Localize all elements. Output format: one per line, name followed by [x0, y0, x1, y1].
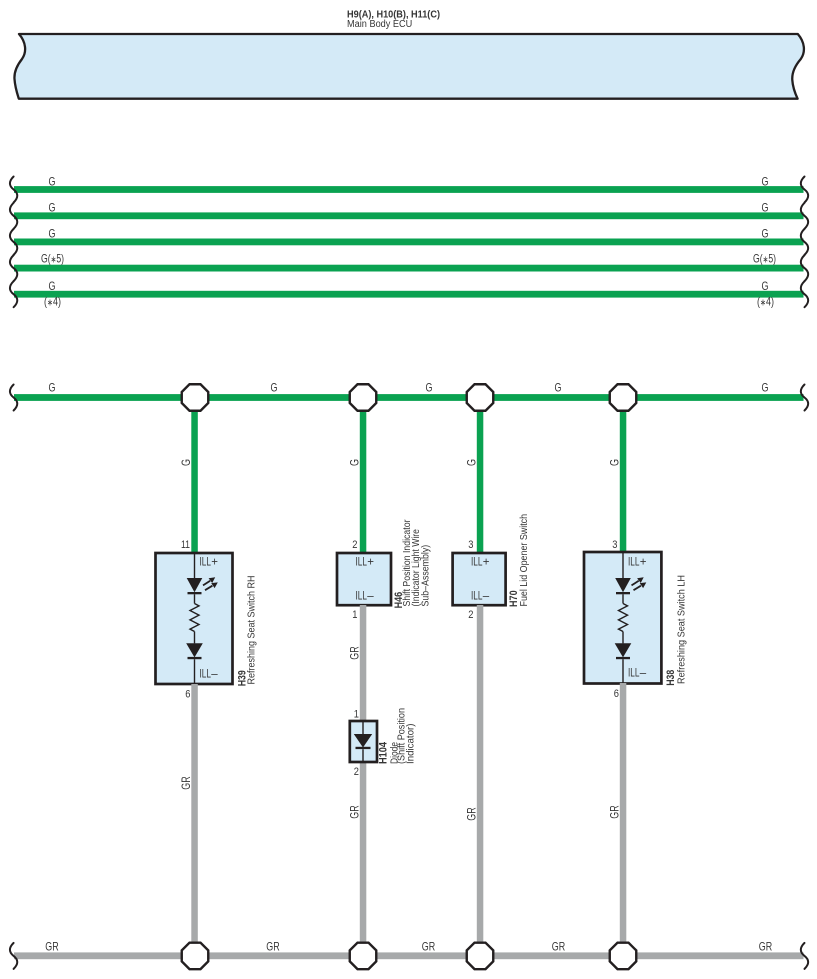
svg-text:3: 3: [612, 539, 617, 551]
svg-text:H38: H38: [665, 670, 677, 686]
svg-text:6: 6: [185, 689, 190, 701]
gray wire labels GR (rotated): [179, 646, 622, 821]
branch wire labels G (rotated): [179, 459, 622, 466]
H104 diode symbol: [354, 734, 372, 748]
row labels right: [753, 174, 776, 308]
svg-text:2: 2: [354, 766, 359, 778]
svg-text:3: 3: [468, 539, 473, 551]
svg-text:–: –: [483, 590, 490, 602]
wire row 1 (G): [14, 186, 804, 193]
bottom ground bus (GR): [14, 952, 804, 959]
svg-text:GR: GR: [266, 940, 280, 954]
main illumination bus (G): [14, 394, 804, 401]
svg-text:G: G: [426, 380, 433, 394]
svg-text:G: G: [762, 174, 769, 188]
node junction 1: [182, 384, 209, 411]
H38 LED light arrows: [632, 581, 641, 590]
wire break bottom bus left: [10, 943, 17, 969]
svg-text:Sub–Assembly): Sub–Assembly): [421, 545, 432, 607]
wire break bus right: [801, 385, 808, 411]
H39 LED symbol: [187, 578, 203, 592]
H38 LED symbol: [615, 578, 631, 592]
svg-text:Refreshing Seat Switch LH: Refreshing Seat Switch LH: [677, 575, 688, 684]
wire row 5 (G (*4)): [14, 291, 804, 298]
H39 diode: [186, 643, 203, 657]
wire row 4 (G(*5)): [14, 265, 804, 272]
connector box H39: [156, 553, 233, 684]
H39 internal wire: [194, 553, 196, 684]
branch wire 4 (G) to H38: [620, 398, 627, 553]
svg-text:GR: GR: [348, 646, 362, 660]
svg-text:Refreshing Seat Switch RH: Refreshing Seat Switch RH: [247, 576, 258, 685]
svg-text:1: 1: [352, 609, 357, 621]
svg-text:ILL: ILL: [356, 556, 368, 568]
break marks bottom bus: [10, 943, 808, 969]
svg-text:GR: GR: [552, 940, 566, 954]
bottom bus labels GR: [45, 940, 772, 954]
wire row 3 (G): [14, 239, 804, 246]
svg-text:G: G: [348, 459, 362, 466]
gray wire H70 to bottom bus (GR): [477, 605, 484, 955]
bus segment labels G: [49, 380, 769, 394]
svg-text:ILL: ILL: [471, 590, 483, 602]
svg-text:ILL: ILL: [628, 668, 640, 680]
svg-text:G: G: [762, 227, 769, 241]
node junction 4: [610, 384, 637, 411]
ECU connector band H9/H10/H11 (Main Body ECU): [14, 34, 803, 99]
svg-text:–: –: [367, 590, 374, 602]
svg-text:G: G: [49, 201, 56, 215]
node junction 3: [467, 384, 494, 411]
H104 internal wire: [362, 721, 364, 762]
node junction 2: [350, 384, 377, 411]
wire break row 4 left: [10, 255, 17, 281]
svg-text:GR: GR: [179, 776, 193, 790]
svg-text:G(∗5): G(∗5): [753, 251, 776, 265]
svg-text:Fuel Lid Opener Switch: Fuel Lid Opener Switch: [519, 514, 530, 607]
break marks right rows: [801, 177, 808, 308]
branch wire 2 (G) to H46: [360, 398, 367, 554]
svg-text:+: +: [640, 556, 647, 568]
svg-text:GR: GR: [45, 940, 59, 954]
svg-text:G: G: [762, 201, 769, 215]
svg-text:GR: GR: [465, 807, 479, 821]
wire break row 3 left: [10, 229, 17, 255]
svg-text:G: G: [49, 174, 56, 188]
svg-text:G(∗5): G(∗5): [41, 251, 64, 265]
wire break bus left: [10, 385, 17, 411]
svg-text:+: +: [211, 556, 218, 568]
wire break row 4 right: [801, 255, 808, 281]
svg-text:+: +: [483, 556, 490, 568]
svg-text:G: G: [762, 380, 769, 394]
svg-text:Main Body ECU: Main Body ECU: [347, 19, 412, 30]
svg-text:G: G: [271, 380, 278, 394]
svg-text:(∗4): (∗4): [757, 295, 774, 309]
gray wire H38 to bottom bus (GR): [620, 683, 627, 955]
connector box H70: [453, 553, 506, 605]
svg-text:2: 2: [352, 539, 357, 551]
bottom node 1: [182, 943, 209, 970]
gray wire H46 to H104 (GR): [360, 605, 367, 721]
H38 internal wire: [622, 552, 624, 684]
branch wire 1 (G) to H39: [191, 398, 198, 554]
svg-text:11: 11: [181, 539, 190, 551]
svg-text:GR: GR: [348, 805, 362, 819]
svg-text:H104: H104: [378, 741, 390, 764]
svg-text:GR: GR: [608, 805, 622, 819]
svg-text:1: 1: [354, 709, 359, 721]
svg-text:–: –: [640, 668, 647, 680]
wire break bottom bus right: [801, 943, 808, 969]
svg-text:+: +: [367, 556, 374, 568]
diode box H104: [350, 721, 377, 762]
svg-text:ILL: ILL: [356, 590, 368, 602]
H39 resistor: [190, 604, 199, 632]
gray wire H104 to bottom bus (GR): [360, 762, 367, 955]
svg-text:–: –: [211, 668, 218, 680]
svg-text:(∗4): (∗4): [44, 295, 61, 309]
wire row 2 (G): [14, 212, 804, 219]
svg-text:2: 2: [468, 609, 473, 621]
H39 LED light arrows: [203, 581, 212, 590]
svg-text:G: G: [49, 380, 56, 394]
wire break row 5 left: [10, 281, 17, 307]
bottom node 4: [610, 943, 637, 970]
break marks bus: [10, 385, 808, 411]
svg-text:ILL: ILL: [200, 668, 212, 680]
wire break row 1 left: [10, 177, 17, 203]
wire break row 2 right: [801, 203, 808, 229]
branch wire 3 (G) to H70: [477, 398, 484, 554]
svg-text:G: G: [465, 459, 479, 466]
svg-text:ILL: ILL: [628, 556, 640, 568]
svg-text:G: G: [555, 380, 562, 394]
svg-text:G: G: [608, 459, 622, 466]
svg-text:G: G: [49, 279, 56, 293]
connector box H38: [584, 552, 661, 684]
bottom node 2: [350, 943, 377, 970]
wire break row 2 left: [10, 203, 17, 229]
bottom node 3: [467, 943, 494, 970]
H38 resistor: [619, 604, 628, 632]
connector box H46: [337, 553, 391, 605]
svg-text:G: G: [49, 227, 56, 241]
H38 diode: [615, 643, 632, 657]
wire break row 3 right: [801, 229, 808, 255]
svg-text:G: G: [179, 459, 193, 466]
svg-text:GR: GR: [422, 940, 436, 954]
row labels left: [41, 174, 64, 308]
svg-text:6: 6: [614, 688, 619, 700]
break marks left rows: [10, 177, 17, 308]
svg-text:ILL: ILL: [200, 556, 212, 568]
svg-text:G: G: [762, 279, 769, 293]
wire break row 5 right: [801, 281, 808, 307]
svg-text:ILL: ILL: [471, 556, 483, 568]
svg-text:GR: GR: [759, 940, 773, 954]
svg-text:Indicator): Indicator): [406, 724, 417, 765]
wire break row 1 right: [801, 177, 808, 203]
gray wire H39 to bottom bus (GR): [191, 684, 198, 955]
